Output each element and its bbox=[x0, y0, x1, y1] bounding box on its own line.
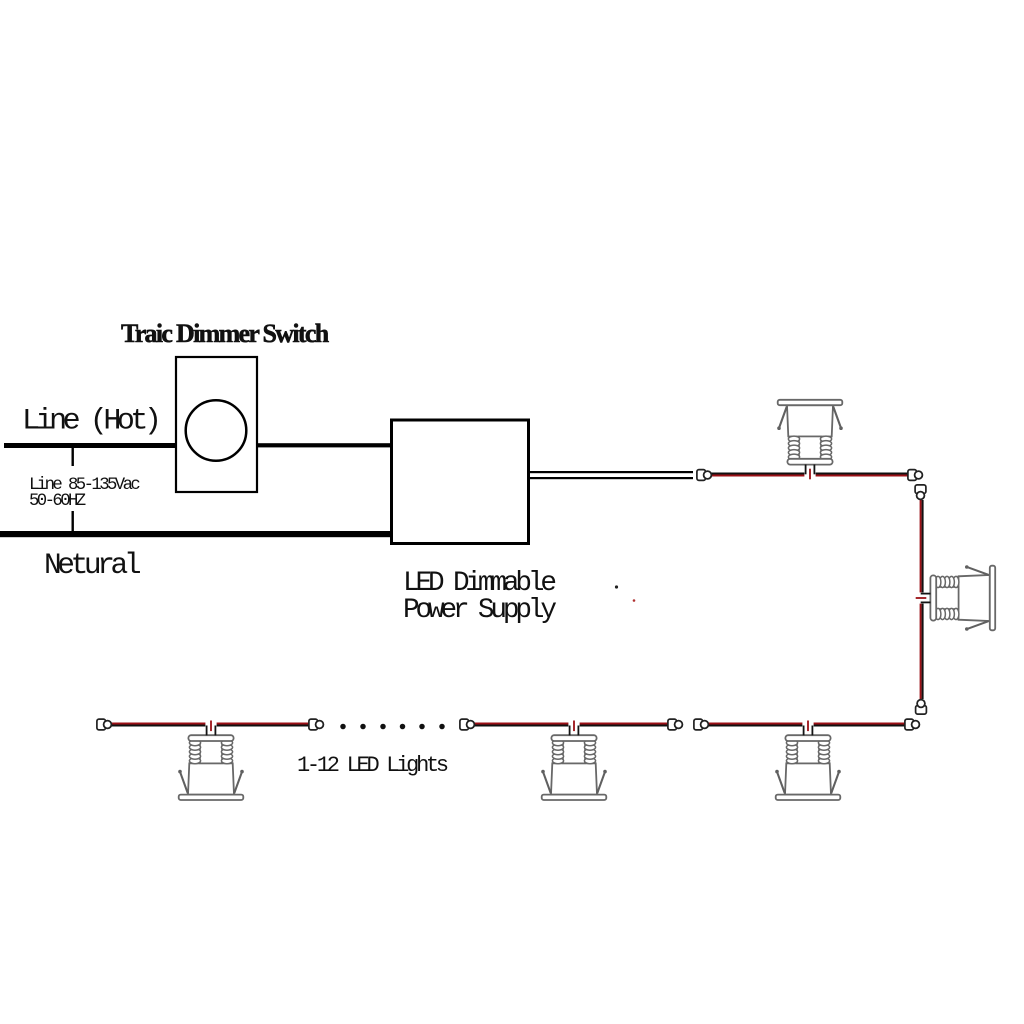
svg-text:Line (Hot): Line (Hot) bbox=[22, 405, 158, 439]
svg-text:Traic Dimmer Switch: Traic Dimmer Switch bbox=[121, 319, 330, 348]
svg-text:50-60HZ: 50-60HZ bbox=[29, 492, 86, 511]
svg-text:Power Supply: Power Supply bbox=[403, 595, 556, 626]
svg-text:1-12 LED Lights: 1-12 LED Lights bbox=[297, 753, 448, 778]
svg-text:Netural: Netural bbox=[44, 548, 141, 582]
